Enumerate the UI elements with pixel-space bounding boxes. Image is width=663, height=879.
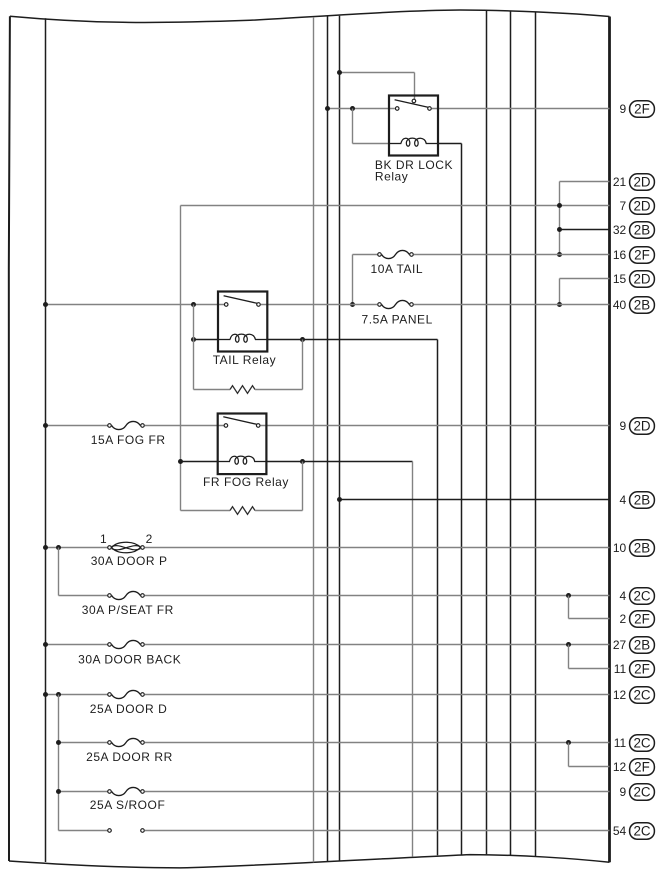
svg-text:15A FOG FR: 15A FOG FR (91, 433, 166, 447)
junction: DOOR D row branch down (56, 692, 61, 697)
wire: row 7 2D (from vertical riser to connector) (181, 205, 610, 207)
connector label 54 2C (613, 823, 655, 839)
junction: DOOR P row branch to P/SEAT (56, 545, 61, 550)
svg-text:25A S/ROOF: 25A S/ROOF (90, 798, 166, 812)
connector label 12 2C (613, 687, 655, 703)
svg-text:2C: 2C (633, 785, 650, 800)
junction: FR FOG coil left (feed from 7 2D riser) (178, 459, 183, 464)
svg-text:2F: 2F (634, 102, 650, 117)
junction: 32 2B on riser (557, 227, 562, 232)
connector label 7 2D (620, 198, 655, 214)
svg-text:2B: 2B (634, 638, 650, 653)
svg-text:9: 9 (620, 419, 627, 433)
junction: coil left (191, 337, 196, 342)
junction: DOOR RR on branch riser (56, 740, 61, 745)
connector label 40 2B (613, 297, 655, 313)
wire: branch to 25A S/ROOF fuse (59, 791, 108, 793)
wire: FR FOG relay switch output to connector 9 2D (261, 425, 610, 427)
wire: 10A TAIL fuse feed from 40 2B row (353, 254, 378, 256)
fuse 25A DOOR RR (108, 738, 145, 746)
junction: 7 2D row and 21 2D riser (557, 203, 562, 208)
svg-text:2B: 2B (634, 223, 650, 238)
connector label 9 2D (620, 418, 655, 434)
label: BK DR LOCK Relay (375, 158, 453, 184)
wire: left bus to 25A DOOR D fuse (46, 694, 108, 696)
svg-text:27: 27 (613, 638, 627, 652)
wire: 10A TAIL to connector 16 2F (414, 254, 610, 256)
wire: 25A DOOR RR to connector 11 2C (145, 742, 610, 744)
wire: row 9-2F left segment to BK DR LOCK relay (328, 108, 395, 110)
fuse 15A FOG FR (108, 421, 145, 429)
connector label 12 2F (613, 759, 655, 775)
wire: open pair to connector 54 2C (145, 830, 610, 832)
connector label 16 2F (613, 247, 655, 263)
wire: left bus to 15A FOG FR fuse (46, 425, 108, 427)
bus vertical (black, center 2) (339, 16, 341, 861)
svg-text:7.5A PANEL: 7.5A PANEL (362, 312, 433, 326)
svg-text:10: 10 (613, 541, 627, 555)
junction: 4 2B on bus (337, 497, 342, 502)
svg-text:15: 15 (613, 272, 627, 286)
relay BK DR LOCK (389, 96, 438, 156)
junction: 27 2B / 11 2F branch (566, 642, 571, 647)
svg-text:2B: 2B (634, 541, 650, 556)
svg-text:30A DOOR BACK: 30A DOOR BACK (78, 653, 181, 667)
junction: DOOR D row on left bus (43, 692, 48, 697)
connector label 15 2D (613, 271, 655, 287)
wire: BK DR LOCK coil feed (down and right into coil) (352, 109, 354, 144)
fuse 30A P/SEAT FR (108, 591, 145, 599)
svg-text:2F: 2F (634, 662, 650, 677)
wire: 25A S/ROOF to connector 9 2C (145, 791, 610, 793)
wire: 30A DOOR P to connector 10 2B (145, 547, 610, 549)
connector label 27 2B (613, 637, 655, 653)
wire: TAIL relay coil line (black) to down-wire (194, 339, 219, 341)
svg-text:2C: 2C (633, 736, 650, 751)
wire: FR FOG suppression right riser (302, 462, 304, 511)
junction: TAIL relay suppression tap (191, 302, 196, 307)
junction: 4 2C / 2 2F branch (566, 593, 571, 598)
wire: left bus to 30A DOOR BACK fuse (46, 644, 108, 646)
junction: 9-2F row on center bus (325, 106, 330, 111)
connector label 4 2B (620, 492, 655, 508)
wire: TAIL relay switch output to 7.5A PANEL fuse (261, 304, 378, 306)
wire: connector 21 2D stub (560, 181, 610, 183)
junction: row on left bus (43, 302, 48, 307)
junction: 9-2F row coil-feed tap (350, 106, 355, 111)
svg-text:10A TAIL: 10A TAIL (371, 262, 424, 276)
page border top torn edge (10, 10, 610, 22)
resistor: FR FOG relay coil suppression (181, 507, 303, 515)
wire: TAIL suppression right riser (302, 340, 304, 390)
svg-text:2D: 2D (633, 272, 650, 287)
svg-text:2D: 2D (633, 199, 650, 214)
svg-text:30A DOOR P: 30A DOOR P (91, 554, 168, 568)
connector label 11 2F (614, 661, 655, 677)
bus vertical (gray, center-left) (313, 17, 315, 862)
svg-text:16: 16 (613, 248, 627, 262)
junction: coil right (300, 337, 305, 342)
svg-text:FR FOG Relay: FR FOG Relay (203, 475, 289, 489)
bus vertical (black, right 1) (486, 10, 488, 854)
relay FR FOG (218, 414, 267, 475)
svg-text:12: 12 (613, 688, 627, 702)
connector label 9 2C (620, 784, 655, 800)
wire: connector 15 2D stub (560, 278, 610, 280)
wire: 30A DOOR BACK to connector 27 2B (145, 644, 610, 646)
svg-text:2C: 2C (633, 824, 650, 839)
wire: row 9-2F right segment from relay to connector 9 2F (432, 108, 610, 110)
terminal: open contact right (54 2C row) (141, 829, 145, 833)
svg-text:2F: 2F (634, 760, 650, 775)
svg-text:11: 11 (614, 662, 627, 676)
wire: branch to open terminal pair (row 54 2C) (59, 830, 108, 832)
page border left edge (8, 16, 9, 861)
svg-text:21: 21 (613, 175, 627, 189)
wire: 7.5A PANEL to connector 40 2B (414, 304, 610, 306)
junction: 40 2B row and 15 2D riser (557, 302, 562, 307)
svg-text:40: 40 (613, 298, 627, 312)
svg-text:7: 7 (620, 199, 627, 213)
wire: left bus to 30A DOOR P fuse (46, 547, 108, 549)
wire: 30A P/SEAT FR to connector 4 2C (145, 595, 610, 597)
connector label 11 2C (614, 735, 655, 751)
connector label 21 2D (613, 174, 655, 190)
fuse 7.5A PANEL (378, 300, 414, 308)
svg-text:2B: 2B (634, 298, 650, 313)
page border bottom torn edge (9, 855, 610, 868)
wire: branch drop to 30A P/SEAT FR fuse (58, 548, 60, 596)
wire: branch riser feeding DOOR RR / S-ROOF / 54 rows (58, 695, 60, 831)
wire: fuse to FR FOG relay switch (145, 425, 224, 427)
bus vertical (black, center 1) (327, 16, 329, 861)
svg-text:54: 54 (613, 824, 627, 838)
svg-text:2C: 2C (633, 589, 650, 604)
wire: 25A DOOR D to connector 12 2C (145, 694, 610, 696)
svg-text:12: 12 (613, 760, 627, 774)
svg-text:2: 2 (620, 612, 627, 626)
svg-text:9: 9 (620, 102, 627, 116)
fuse 30A DOOR P (main fuse) (108, 542, 145, 553)
fuse 30A DOOR BACK (108, 640, 145, 648)
wire: branch to 25A DOOR RR fuse (59, 742, 108, 744)
junction: DOOR BACK row on left bus (43, 642, 48, 647)
wire: row 4 2B (black) from bus to connector (340, 499, 610, 501)
junction: 16 2F on riser (557, 252, 562, 257)
svg-text:2D: 2D (633, 175, 650, 190)
junction: FOG row on left bus (43, 423, 48, 428)
junction: 10A TAIL tap on 40 2B row (350, 302, 355, 307)
svg-text:2: 2 (146, 532, 153, 546)
wire: left bus to TAIL relay switch (row 40 2B) (46, 304, 225, 306)
svg-text:Relay: Relay (375, 170, 408, 184)
page border right edge (608, 17, 611, 863)
svg-text:2F: 2F (634, 248, 650, 263)
resistor: TAIL relay coil suppression (194, 386, 303, 394)
junction: S/ROOF on branch riser (56, 789, 61, 794)
connector label 4 2C (620, 588, 655, 604)
connector label 2 2F (620, 611, 655, 627)
wire: FR FOG coil output down to page bottom (412, 462, 414, 857)
connector label 10 2B (613, 540, 655, 556)
svg-text:4: 4 (620, 493, 627, 507)
junction: 11 2C / 12 2F branch (566, 740, 571, 745)
wire: TAIL suppression left drop (193, 305, 195, 390)
bus vertical (black, right 3) (535, 12, 537, 857)
wire: connector 11 2F stub (568, 645, 570, 669)
wire: TAIL coil output down to page bottom (black) (437, 340, 439, 856)
connector label 32 2B (613, 222, 655, 238)
wire: bus to BK DR LOCK relay top terminal feed (340, 72, 415, 74)
wire: FR FOG coil line (black) (181, 461, 218, 463)
connector label 9 2F (620, 101, 655, 117)
fuse 10A TAIL (378, 250, 414, 258)
svg-text:4: 4 (620, 589, 627, 603)
junction: DOOR P row on left bus (43, 545, 48, 550)
terminal: open contact left (54 2C row) (108, 829, 112, 833)
wire: connector 2 2F stub (568, 596, 570, 619)
svg-text:2F: 2F (634, 612, 650, 627)
wire: BK DR LOCK coil output (black, right then down to page bottom) (438, 143, 462, 145)
fuse 25A S/ROOF (108, 787, 145, 795)
svg-text:25A DOOR D: 25A DOOR D (90, 702, 168, 716)
svg-text:2C: 2C (633, 688, 650, 703)
bus vertical (black, right 2) (510, 11, 512, 856)
bus vertical (left supply bus) (45, 18, 47, 862)
svg-text:11: 11 (614, 736, 627, 750)
svg-text:30A P/SEAT FR: 30A P/SEAT FR (82, 603, 174, 617)
svg-text:TAIL Relay: TAIL Relay (213, 353, 277, 367)
svg-text:2B: 2B (634, 493, 650, 508)
fuse 25A DOOR D (108, 690, 145, 698)
wire: connector 12 2F stub (568, 743, 570, 767)
relay TAIL (218, 292, 267, 352)
svg-text:2D: 2D (633, 419, 650, 434)
svg-text:9: 9 (620, 785, 627, 799)
junction: top feed on black bus (337, 70, 342, 75)
svg-text:25A DOOR RR: 25A DOOR RR (86, 750, 173, 764)
svg-text:32: 32 (613, 223, 627, 237)
wire: connector 32 2B stub (black) (560, 229, 610, 231)
svg-text:1: 1 (100, 532, 107, 546)
junction: FR FOG coil right (300, 459, 305, 464)
